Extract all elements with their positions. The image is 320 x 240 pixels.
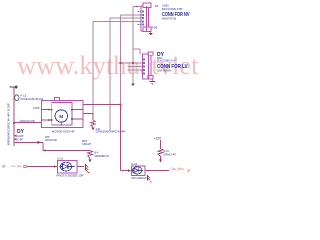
- svg-text:GRN/VIO/RCA-4P: GRN/VIO/RCA-4P: [96, 130, 127, 133]
- svg-text:3-D8: 3-D8: [152, 26, 158, 30]
- svg-text:8A: 8A: [155, 4, 158, 8]
- svg-text:W/MOTOR 5B: W/MOTOR 5B: [162, 16, 176, 20]
- svg-text:FUSE DASH B-10A: FUSE DASH B-10A: [21, 97, 44, 101]
- svg-text:Cau_Mau: Cau_Mau: [171, 167, 184, 171]
- svg-text:M: M: [59, 114, 63, 120]
- svg-text:+12V: +12V: [154, 137, 162, 141]
- svg-text:SIGN TR/A-WA: SIGN TR/A-WA: [157, 69, 172, 73]
- svg-text:BLK/CONN-7H 4P: BLK/CONN-7H 4P: [157, 59, 177, 63]
- svg-text:GND-2P: GND-2P: [82, 143, 91, 146]
- svg-text:MOTO CABLE-10P: MOTO CABLE-10P: [132, 176, 147, 180]
- svg-text:GRN/VIO 0.5F: GRN/VIO 0.5F: [20, 120, 36, 123]
- svg-text:3-825: 3-825: [162, 3, 169, 7]
- svg-text:BRN/VIO/RCA-4P 0.5F: BRN/VIO/RCA-4P 0.5F: [7, 103, 11, 145]
- svg-text:GRN/LT-4P: GRN/LT-4P: [164, 153, 177, 156]
- svg-text:F-12: F-12: [21, 93, 27, 97]
- svg-text:D-24: D-24: [132, 162, 138, 166]
- svg-text:Cau_Mau: Cau_Mau: [11, 164, 22, 168]
- svg-text:4-WP: 4-WP: [17, 134, 24, 138]
- svg-text:GRN/VIO-6P: GRN/VIO-6P: [45, 139, 57, 142]
- svg-text:GRN/8DD-4P: GRN/8DD-4P: [95, 155, 110, 158]
- svg-text:C-6P: C-6P: [17, 137, 23, 141]
- svg-text:MOTOR ASSY-4P: MOTOR ASSY-4P: [52, 130, 75, 134]
- svg-text:PHOTO DIODE-10P: PHOTO DIODE-10P: [57, 174, 84, 178]
- svg-text:D-12: D-12: [58, 156, 64, 160]
- svg-text:BLK/CONN-5 8P: BLK/CONN-5 8P: [162, 7, 183, 11]
- svg-text:4-WP: 4-WP: [33, 106, 40, 110]
